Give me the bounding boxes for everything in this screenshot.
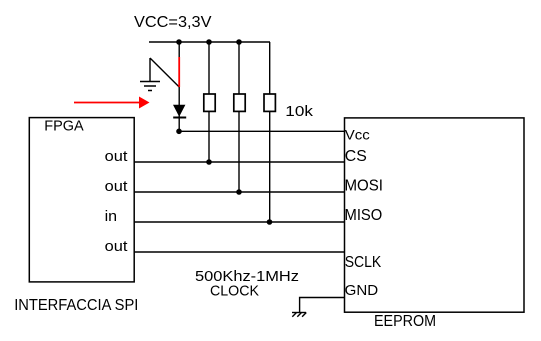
svg-text:CS: CS bbox=[345, 148, 367, 165]
svg-text:out: out bbox=[105, 179, 128, 195]
svg-text:INTERFACCIA SPI: INTERFACCIA SPI bbox=[14, 297, 138, 314]
svg-text:GND: GND bbox=[345, 282, 379, 299]
svg-text:FPGA: FPGA bbox=[44, 118, 84, 134]
svg-text:out: out bbox=[105, 149, 128, 165]
svg-text:out: out bbox=[105, 239, 128, 255]
svg-text:Vcc: Vcc bbox=[345, 127, 370, 143]
svg-text:VCC=3,3V: VCC=3,3V bbox=[134, 14, 212, 31]
svg-text:CLOCK: CLOCK bbox=[210, 284, 259, 300]
svg-text:SCLK: SCLK bbox=[345, 254, 382, 271]
svg-text:10k: 10k bbox=[285, 103, 313, 120]
svg-text:500Khz-1MHz: 500Khz-1MHz bbox=[195, 268, 299, 285]
svg-text:MISO: MISO bbox=[345, 207, 383, 224]
svg-text:in: in bbox=[105, 209, 118, 225]
svg-text:MOSI: MOSI bbox=[345, 177, 384, 194]
svg-text:EEPROM: EEPROM bbox=[374, 313, 436, 330]
